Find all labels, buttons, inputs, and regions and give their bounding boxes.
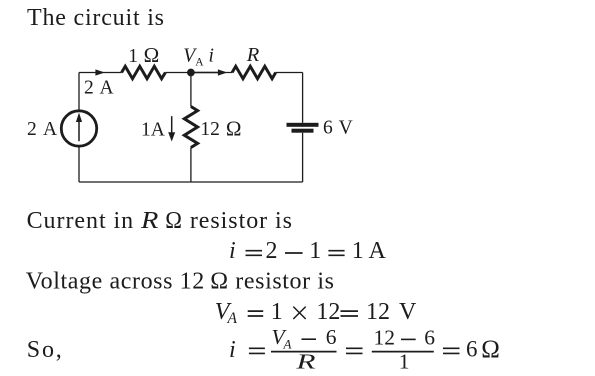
svg-text:6: 6 [466, 337, 478, 362]
svg-text:1: 1 [309, 238, 321, 264]
svg-text:i: i [209, 45, 214, 66]
svg-text:Ω: Ω [144, 43, 160, 67]
svg-text:6: 6 [424, 325, 435, 349]
svg-text:2 A: 2 A [27, 119, 58, 140]
svg-text:12: 12 [366, 299, 390, 325]
svg-text:Current in R Ω resistor is: Current in R Ω resistor is [27, 208, 293, 234]
svg-text:i: i [229, 238, 236, 264]
svg-text:1: 1 [271, 299, 283, 325]
svg-text:So,: So, [27, 337, 64, 363]
svg-text:A: A [195, 57, 204, 69]
svg-text:V: V [399, 299, 417, 325]
svg-text:1: 1 [352, 238, 364, 264]
svg-text:6: 6 [326, 325, 337, 349]
svg-text:i: i [229, 337, 236, 363]
svg-text:6 V: 6 V [323, 118, 353, 139]
svg-text:12: 12 [316, 299, 340, 325]
svg-text:R: R [246, 45, 260, 66]
svg-text:Voltage across 12 Ω resistor i: Voltage across 12 Ω resistor is [26, 269, 335, 295]
svg-text:Ω: Ω [226, 117, 242, 141]
svg-text:12: 12 [374, 325, 396, 349]
svg-text:A: A [227, 310, 238, 327]
svg-text:A: A [283, 337, 292, 352]
svg-text:1: 1 [128, 46, 138, 67]
svg-text:1: 1 [399, 350, 410, 374]
svg-text:The circuit is: The circuit is [27, 5, 165, 31]
svg-text:12: 12 [200, 119, 220, 140]
svg-text:A: A [369, 238, 387, 264]
svg-text:2: 2 [266, 238, 278, 264]
svg-text:2 A: 2 A [84, 77, 115, 98]
svg-text:Ω: Ω [481, 336, 500, 363]
svg-text:R: R [295, 349, 315, 373]
svg-text:1A: 1A [141, 119, 165, 140]
